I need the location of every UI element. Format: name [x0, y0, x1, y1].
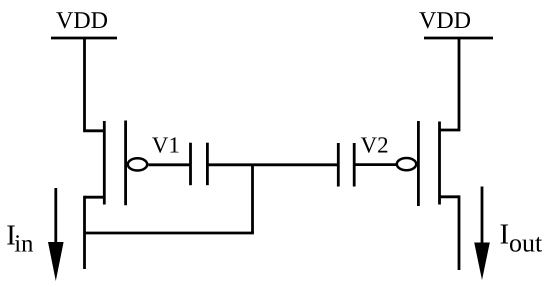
transistor M2 (PMOS) channel line: [438, 122, 441, 205]
current arrow Iin: [54, 188, 57, 248]
VDD rail bar (left): [51, 37, 117, 40]
VDD label (right): [419, 12, 470, 28]
wire: M1 drain tap: [85, 196, 105, 199]
wire: M2 source to right VDD: [440, 38, 460, 130]
capacitor C2 left plate: [337, 143, 340, 187]
wire: middle node riser down: [251, 165, 254, 233]
capacitor C2 right plate: [353, 143, 356, 187]
transistor M1 gate bubble: [128, 158, 147, 170]
wire: C2 to M2 bubble (node V2): [354, 163, 397, 166]
wire: M1 drain down to input node: [83, 196, 86, 269]
node V1 label: [152, 137, 178, 153]
wire: M2 drain tap: [440, 195, 460, 198]
wire: middle node C1 to C2: [207, 163, 338, 166]
wire: M1 bubble to capacitor C1 (node V1): [148, 163, 190, 166]
wire: bottom feedback wire to M1 drain: [85, 232, 254, 235]
Iout label: [501, 225, 509, 244]
transistor M2 gate line: [417, 121, 420, 206]
wire: M2 drain down to output node: [458, 195, 461, 270]
capacitor C1 right plate: [206, 143, 209, 186]
VDD label (left): [56, 12, 107, 28]
transistor M1 (PMOS) channel line: [103, 121, 106, 205]
VDD rail bar (right): [424, 37, 493, 40]
transistor M2 gate bubble: [397, 158, 416, 170]
current arrow Iout: [481, 187, 484, 249]
transistor M1 gate line: [124, 121, 127, 206]
node V2 label: [361, 137, 388, 153]
Iin label: [7, 226, 15, 245]
capacitor C1 left plate: [189, 143, 192, 186]
wire: left VDD to source of M1: [85, 38, 105, 131]
